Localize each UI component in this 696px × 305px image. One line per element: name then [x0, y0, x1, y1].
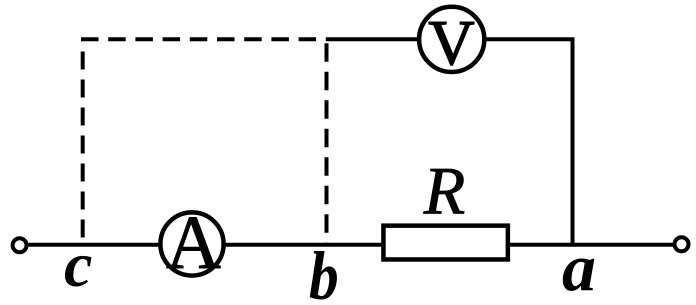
wire left terminal to ammeter: [29, 243, 160, 247]
svg-text:R: R: [423, 152, 466, 228]
voltmeter V1 circle: [419, 7, 484, 72]
terminal left: [13, 238, 27, 252]
dashed wire left vertical at node c: [81, 52, 85, 247]
terminal right: [675, 237, 689, 251]
svg-text:a: a: [562, 229, 596, 305]
ammeter A1 circle: [160, 212, 223, 275]
wire resistor to right terminal: [509, 243, 675, 247]
resistor R: [383, 226, 507, 260]
svg-text:c: c: [64, 229, 92, 300]
dashed wire right vertical at node b: [325, 43, 329, 246]
wire ammeter to resistor: [224, 243, 383, 247]
svg-text:V: V: [428, 7, 474, 78]
wire dashed-junction to voltmeter: [327, 37, 419, 41]
svg-text:b: b: [309, 238, 339, 305]
dashed wire top horizontal c-to-b-junction: [81, 37, 327, 41]
svg-text:A: A: [166, 201, 221, 285]
wire voltmeter to node a (corner): [485, 39, 573, 244]
